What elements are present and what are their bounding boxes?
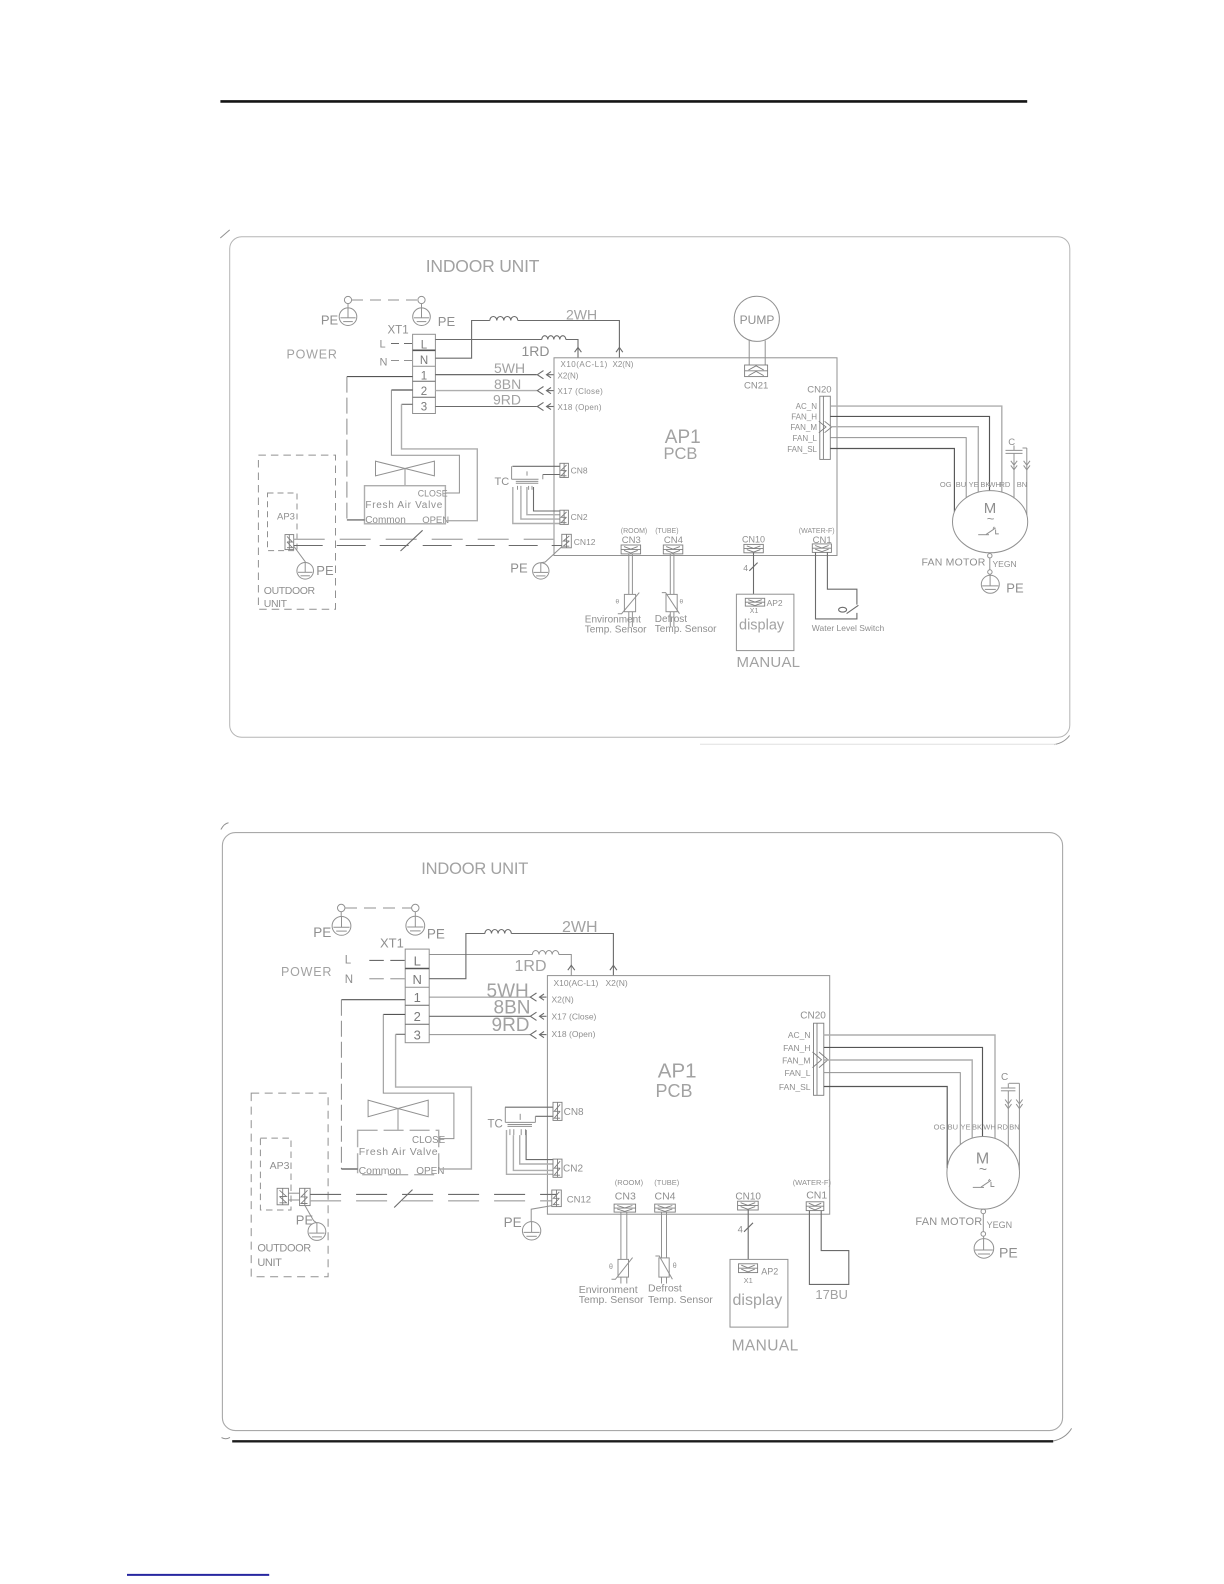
dashed wire N to XT1 [391, 360, 413, 362]
wire YEGN to PE [989, 558, 991, 570]
svg-text:AC_N: AC_N [788, 1030, 811, 1040]
svg-text:XT1: XT1 [388, 325, 409, 337]
svg-text:BK: BK [972, 1123, 982, 1132]
svg-text:FAN_H: FAN_H [791, 412, 817, 421]
svg-text:2: 2 [421, 386, 427, 398]
svg-text:(ROOM): (ROOM) [621, 528, 647, 535]
secondary wire 1 to CN2 (diagram 2) [526, 1130, 553, 1160]
svg-text:Common: Common [365, 515, 406, 526]
wire L to X10(AC-L1) with choke coil 1RD (diagram 2) [429, 951, 571, 976]
wires CN3 to sensor (diagram 2) [620, 1212, 622, 1259]
svg-text:TC: TC [495, 476, 510, 488]
svg-text:BU: BU [956, 480, 966, 489]
svg-text:2: 2 [414, 1009, 421, 1024]
motor earth terminal [988, 554, 992, 558]
svg-text:X10(AC-L1): X10(AC-L1) [561, 360, 608, 369]
interconnect cable wire lower (diagram 2) [310, 1200, 551, 1202]
svg-text:(TUBE): (TUBE) [655, 528, 678, 535]
svg-text:YEGN: YEGN [987, 1220, 1013, 1230]
wire terminal2 to CLOSE (diagram 2) [383, 1013, 405, 1015]
connector CN8 [560, 463, 569, 477]
PCB AP1 outline (diagram 1) [554, 358, 837, 556]
svg-text:PUMP: PUMP [740, 313, 775, 327]
secondary wire 4 to CN2 (diagram 2) [507, 1130, 554, 1174]
connector CN20 [819, 396, 832, 459]
svg-text:FAN_L: FAN_L [785, 1068, 811, 1078]
connector CN20 (diagram 2) [813, 1023, 829, 1095]
svg-text:5WH: 5WH [494, 360, 525, 376]
connector CN12 [562, 534, 572, 548]
svg-text:L: L [345, 954, 352, 966]
wire CN12 to PE [541, 547, 562, 563]
wire CN10 to display [753, 553, 755, 594]
svg-text:INDOOR UNIT: INDOOR UNIT [426, 256, 540, 276]
connector CN3 [621, 545, 641, 554]
svg-text:AC_N: AC_N [796, 402, 818, 411]
svg-text:display: display [733, 1292, 783, 1309]
wires CN4 to sensor (diagram 2) [661, 1212, 663, 1258]
svg-text:Common: Common [359, 1165, 402, 1177]
interconnect cable wire (upper) [294, 538, 562, 540]
svg-text:BU: BU [948, 1123, 958, 1132]
svg-text:(WATER-F): (WATER-F) [793, 1178, 832, 1187]
wire N to X2(N) with choke coil 2WH [435, 317, 619, 359]
svg-text:PE: PE [313, 925, 331, 940]
PE symbol fan motor [981, 570, 999, 594]
svg-text:AP2: AP2 [767, 598, 783, 608]
wire capacitor RD to motor [1011, 453, 1017, 498]
arrow into X10(AC-L1) [575, 347, 582, 352]
svg-text:N: N [420, 355, 428, 367]
svg-text:CN1: CN1 [813, 535, 832, 546]
wire capacitor BN to motor [1024, 448, 1030, 515]
svg-text:FAN_H: FAN_H [783, 1043, 810, 1053]
svg-text:PCB: PCB [656, 1081, 693, 1101]
dashed link between PE terminals (diagram 2) [345, 907, 412, 909]
secondary wire 3 to CN2 (diagram 2) [513, 1135, 553, 1170]
svg-text:YE: YE [960, 1123, 970, 1132]
wire terminal2 to CLOSE [391, 389, 412, 391]
connector AP3 [285, 535, 294, 550]
connector CN1 (diagram 2) [806, 1202, 824, 1211]
connector CN21 [745, 365, 768, 377]
svg-text:1RD: 1RD [522, 343, 550, 359]
svg-text:MANUAL: MANUAL [732, 1337, 799, 1354]
connector CN4 [663, 545, 683, 554]
wire 8BN (diagram 2) [429, 1015, 530, 1017]
svg-text:X2(N): X2(N) [613, 360, 634, 369]
svg-text:UNIT: UNIT [264, 598, 288, 610]
wire N to X2(N) with choke coil 2WH (diagram 2) [429, 930, 613, 979]
wires CN3 to sensor [628, 554, 630, 595]
svg-text:AP2: AP2 [761, 1266, 778, 1276]
arrows 5WH into pin (diagram 2) [530, 993, 546, 1001]
svg-text:PE: PE [427, 926, 445, 941]
corner curl bottom-right box2 [1053, 1428, 1071, 1441]
svg-text:AP3: AP3 [277, 511, 295, 522]
svg-text:CLOSE: CLOSE [412, 1135, 446, 1146]
arrows 8BN into pin (diagram 2) [530, 1012, 546, 1020]
wire CN10 to display (diagram 2) [747, 1210, 749, 1259]
wire terminal1 to Common [347, 376, 413, 378]
svg-text:θ: θ [616, 599, 620, 606]
water level switch [816, 552, 859, 619]
PE symbol outdoor [297, 563, 314, 580]
dashed wire L to XT1 [391, 343, 413, 345]
transformer TC primary and wires to CN8 (diagram 2) [505, 1107, 553, 1116]
svg-text:CN3: CN3 [622, 535, 641, 546]
svg-text:Temp. Sensor: Temp. Sensor [579, 1294, 644, 1306]
connector CN1 [812, 544, 831, 553]
svg-text:FAN MOTOR: FAN MOTOR [915, 1216, 982, 1228]
wire terminal3 to OPEN (diagram 2) [396, 1033, 406, 1035]
wire FAN_M to motor YE (diagram 2) [824, 1060, 972, 1138]
svg-text:CN21: CN21 [744, 381, 768, 392]
svg-text:X1: X1 [744, 1276, 753, 1285]
wire 9RD (diagram 2) [429, 1034, 530, 1036]
svg-text:Temp. Sensor: Temp. Sensor [655, 624, 717, 635]
arrow into X2(N) top (diagram 2) [610, 965, 617, 970]
svg-text:N: N [380, 357, 388, 369]
thermal protector symbol (diagram 2) [973, 1179, 995, 1187]
svg-text:CN2: CN2 [571, 512, 588, 522]
svg-text:(ROOM): (ROOM) [615, 1178, 644, 1187]
top rule [220, 100, 1027, 103]
wire CN12 to PE (diagram 2) [531, 1206, 552, 1222]
svg-text:PE: PE [1006, 581, 1024, 596]
frame box diagram 2 [222, 833, 1062, 1431]
AP3 dashed box (diagram 2) [260, 1138, 291, 1210]
svg-text:X2(N): X2(N) [552, 995, 574, 1005]
fresh air valve box (diagram 2) [358, 1130, 439, 1174]
faint shadow line under box1 [700, 743, 1056, 745]
thermistor defrost sensor (diagram 2) [655, 1256, 672, 1284]
terminal block XT1 (diagram 2) [405, 949, 429, 1043]
blue footer underline [127, 1574, 269, 1576]
wire 5WH (diagram 2) [429, 996, 530, 998]
svg-text:OUTDOOR: OUTDOOR [264, 585, 316, 597]
thermal protector symbol [978, 527, 999, 535]
svg-text:UNIT: UNIT [257, 1257, 282, 1269]
arrows 9RD into pin X18 [537, 402, 553, 410]
svg-text:L: L [421, 340, 428, 352]
dark rule under box2 [232, 1440, 1053, 1442]
svg-text:POWER: POWER [281, 965, 332, 979]
fresh air valve box [365, 486, 446, 524]
PE symbol near CN12 (diagram 2) [522, 1222, 540, 1240]
svg-text:CN2: CN2 [563, 1163, 583, 1174]
wire AP3 to PE [294, 547, 305, 564]
arrows 8BN into pin X17 [537, 387, 553, 395]
svg-text:OPEN: OPEN [422, 515, 449, 526]
stub wires between AP3 connectors (diagram 2) [288, 1192, 299, 1194]
svg-text:RD: RD [999, 480, 1010, 489]
svg-text:CN20: CN20 [800, 1011, 826, 1022]
svg-text:YE: YE [969, 480, 979, 489]
svg-text:PCB: PCB [664, 445, 698, 463]
svg-text:BN: BN [1017, 480, 1027, 489]
dashed wire N to XT1 (diagram 2) [369, 978, 405, 980]
fresh air valve bowtie symbol [376, 461, 435, 476]
interconnect cable wire (lower) [294, 545, 562, 547]
svg-text:L: L [380, 339, 386, 351]
wire FAN_L to motor BU (diagram 2) [824, 1073, 961, 1145]
transformer core (diagram 2) [508, 1124, 533, 1126]
svg-text:~: ~ [987, 511, 995, 526]
svg-text:CN20: CN20 [807, 385, 831, 396]
connector CN8 (diagram 2) [553, 1102, 562, 1120]
thermistor environment sensor (diagram 2) [612, 1258, 633, 1284]
svg-text:BN: BN [1009, 1123, 1019, 1132]
svg-text:AP1: AP1 [658, 1059, 697, 1082]
fan motor circle M (diagram 2) [947, 1137, 1020, 1210]
svg-text:9RD: 9RD [492, 1015, 530, 1036]
svg-text:2WH: 2WH [566, 307, 597, 323]
wire CN1 to water level switch [827, 552, 857, 604]
secondary wire 2 to CN2 [527, 487, 560, 515]
svg-text:1: 1 [421, 371, 427, 383]
svg-text:N: N [345, 974, 353, 986]
svg-text:X1: X1 [750, 608, 759, 615]
svg-text:AP3: AP3 [270, 1160, 290, 1172]
svg-text:Fresh Air Valve: Fresh Air Valve [365, 500, 443, 511]
cable count slash (diagram 2) [394, 1190, 412, 1208]
frame box diagram 1 [230, 237, 1070, 738]
wire 9RD [435, 406, 536, 408]
svg-text:FAN_M: FAN_M [782, 1056, 810, 1066]
svg-text:display: display [739, 618, 785, 634]
corner curl bottom-right box1 [1054, 736, 1070, 745]
svg-text:3: 3 [421, 402, 427, 414]
svg-text:Defrost: Defrost [648, 1283, 682, 1295]
transformer secondary winding ticks [518, 486, 533, 490]
secondary wire 1 to CN2 [534, 487, 561, 511]
svg-text:~: ~ [979, 1161, 987, 1177]
connector CN10 [744, 544, 763, 552]
svg-text:X2(N): X2(N) [558, 371, 579, 380]
svg-text:9RD: 9RD [493, 391, 521, 407]
wire FAN_M to motor (YE) [830, 427, 978, 493]
connector AP2/X1 (diagram 2) [739, 1264, 758, 1273]
PCB AP1 outline (diagram 2) [547, 976, 829, 1215]
svg-text:PE: PE [316, 563, 334, 578]
svg-text:PE: PE [321, 313, 339, 328]
AP3 dashed box [268, 493, 298, 551]
svg-text:X2(N): X2(N) [606, 978, 628, 988]
svg-text:8BN: 8BN [494, 376, 521, 392]
svg-text:CN8: CN8 [571, 465, 588, 475]
terminal block XT1 (diagram 1) [413, 334, 436, 413]
wire FAN_SL to motor (OG) [830, 449, 954, 512]
thermistor (environment sensor) [618, 593, 640, 627]
wire mating connector to PE (diagram 2) [305, 1206, 317, 1223]
mating connector on cable (diagram 2) [300, 1188, 311, 1205]
arrow into X2(N) top [616, 347, 623, 352]
fresh air valve bowtie symbol (diagram 2) [368, 1100, 428, 1117]
wire 5WH [435, 374, 536, 376]
secondary wire 2 to CN2 (diagram 2) [520, 1135, 553, 1164]
svg-text:θ: θ [680, 599, 684, 606]
PUMP motor circle [734, 296, 779, 341]
wire capacitor RD to motor (diagram 2) [1005, 1091, 1011, 1147]
svg-text:X17 (Close): X17 (Close) [558, 387, 604, 396]
corner curl bottom-left box2 [222, 1437, 231, 1438]
connector CN4 (diagram 2) [655, 1204, 676, 1212]
svg-text:TC: TC [488, 1118, 503, 1130]
wire L to X10(AC-L1) with choke coil 1RD [435, 336, 578, 358]
svg-text:PE: PE [510, 560, 528, 575]
PE symbol fan motor (diagram 2) [974, 1232, 994, 1259]
svg-text:L: L [414, 954, 421, 969]
wire 8BN [435, 390, 536, 392]
svg-text:Water Level Switch: Water Level Switch [812, 623, 885, 633]
transformer TC primary and wires to CN8 [512, 466, 560, 474]
wires PUMP to CN21 [748, 341, 750, 366]
wires CN4 to sensor [669, 554, 671, 595]
display board box (diagram 2) [730, 1259, 788, 1327]
fan motor circle M [953, 491, 1028, 553]
svg-text:PE: PE [999, 1244, 1018, 1260]
connector CN2 [560, 510, 569, 524]
connector AP3 (diagram 2) [277, 1188, 288, 1205]
svg-text:X17 (Close): X17 (Close) [552, 1012, 597, 1022]
svg-text:1RD: 1RD [515, 958, 547, 975]
PE symbol near CN12 [533, 563, 549, 579]
wire AC_N to motor WH (diagram 2) [824, 1035, 995, 1139]
svg-text:XT1: XT1 [380, 936, 404, 951]
svg-text:FAN MOTOR: FAN MOTOR [922, 556, 986, 568]
outdoor unit dashed box [258, 455, 335, 609]
capacitor C (diagram 2) [1001, 1083, 1020, 1091]
dashed link between PE terminals [352, 299, 418, 301]
connector AP2/X1 [745, 598, 764, 606]
svg-text:Temp. Sensor: Temp. Sensor [585, 624, 647, 635]
connector CN12 (diagram 2) [552, 1190, 562, 1207]
svg-text:CLOSE: CLOSE [418, 489, 448, 499]
svg-text:3: 3 [414, 1028, 421, 1043]
svg-text:(WATER-F): (WATER-F) [799, 528, 835, 535]
svg-text:Temp. Sensor: Temp. Sensor [648, 1294, 713, 1306]
svg-text:FAN_SL: FAN_SL [787, 445, 817, 454]
svg-text:FAN_M: FAN_M [790, 423, 817, 432]
PE symbol 2 (diagram 1) [413, 296, 431, 325]
svg-text:YEGN: YEGN [993, 559, 1017, 569]
svg-text:INDOOR UNIT: INDOOR UNIT [421, 860, 528, 878]
PE symbol 1 (diagram 2) [332, 904, 351, 935]
svg-text:4: 4 [738, 1224, 743, 1235]
svg-text:N: N [413, 972, 422, 987]
arrows 5WH into pin X2(N) [537, 371, 553, 379]
svg-text:CN12: CN12 [574, 537, 596, 547]
PE symbol 1 (top left, diagram 1) [339, 296, 357, 325]
svg-text:OUTDOOR: OUTDOOR [257, 1243, 311, 1255]
wire FAN_H to motor (BK) [830, 416, 989, 490]
wire AC_N to motor (WH) [830, 406, 1002, 492]
svg-text:X10(AC-L1): X10(AC-L1) [554, 978, 599, 988]
svg-text:OG: OG [934, 1123, 946, 1132]
wire capacitor BN to motor (diagram 2) [1016, 1083, 1022, 1170]
svg-text:CN12: CN12 [567, 1194, 591, 1205]
svg-text:MANUAL: MANUAL [737, 654, 801, 671]
svg-text:CN10: CN10 [742, 535, 765, 545]
svg-text:PE: PE [438, 314, 456, 329]
PE symbol outdoor (diagram 2) [308, 1223, 326, 1241]
arrow into X10(AC-L1) (diagram 2) [568, 965, 575, 970]
secondary wire 3 to CN2 [521, 490, 560, 519]
wire terminal3 to OPEN [402, 403, 413, 405]
svg-text:X18 (Open): X18 (Open) [552, 1029, 596, 1039]
svg-text:FAN_SL: FAN_SL [779, 1082, 811, 1092]
connector CN10 (diagram 2) [738, 1201, 759, 1210]
display board box [736, 594, 794, 650]
svg-text:X18 (Open): X18 (Open) [558, 403, 602, 412]
dashed wire L to XT1 (diagram 2) [369, 959, 405, 961]
capacitor C [1006, 446, 1027, 454]
svg-text:CN3: CN3 [615, 1191, 636, 1203]
thermistor (defrost sensor) [662, 593, 680, 627]
secondary wire 4 to CN2 [513, 487, 560, 524]
valve stem [404, 469, 406, 486]
transformer secondary ticks (diagram 2) [510, 1129, 526, 1135]
cable count slash [401, 530, 423, 551]
svg-text:CN1: CN1 [806, 1190, 827, 1202]
svg-text:RD: RD [997, 1123, 1008, 1132]
valve stem (diagram 2) [397, 1109, 399, 1131]
interconnect cable wire upper (diagram 2) [310, 1193, 557, 1195]
svg-text:C: C [1001, 1072, 1008, 1083]
svg-text:OPEN: OPEN [416, 1166, 444, 1177]
outdoor unit dashed box (diagram 2) [251, 1093, 328, 1277]
svg-text:2WH: 2WH [562, 919, 598, 936]
wire FAN_H to motor BK (diagram 2) [824, 1047, 983, 1136]
connector CN2 (diagram 2) [553, 1159, 562, 1177]
wire terminal1 to Common (diagram 2) [341, 999, 405, 1001]
corner curl top-left box2 [221, 823, 229, 830]
svg-text:CN4: CN4 [664, 535, 683, 546]
svg-text:17BU: 17BU [815, 1287, 848, 1302]
svg-text:1: 1 [414, 990, 421, 1005]
PE symbol 2 (diagram 2) [406, 904, 425, 935]
corner curl top-left box1 [220, 230, 229, 238]
wire 17BU jumper on CN1 (diagram 2) [809, 1211, 848, 1285]
svg-text:(TUBE): (TUBE) [654, 1178, 680, 1187]
svg-text:Fresh Air Valve: Fresh Air Valve [359, 1146, 438, 1158]
svg-text:FAN_L: FAN_L [793, 434, 818, 443]
wire FAN_SL to motor OG (diagram 2) [824, 1087, 947, 1169]
arrows 9RD into pin (diagram 2) [530, 1031, 546, 1039]
svg-text:CN8: CN8 [564, 1107, 584, 1118]
wire YEGN to PE (diagram 2) [982, 1214, 984, 1232]
svg-text:PE: PE [296, 1213, 314, 1228]
connector CN3 (diagram 2) [614, 1204, 636, 1212]
svg-text:OG: OG [940, 480, 952, 489]
svg-text:CN4: CN4 [655, 1191, 676, 1203]
svg-text:θ: θ [673, 1263, 677, 1270]
svg-text:4: 4 [743, 563, 748, 573]
transformer core [516, 480, 539, 482]
svg-text:PE: PE [504, 1215, 522, 1230]
svg-text:θ: θ [609, 1264, 613, 1271]
wire FAN_L to motor (BU) [830, 438, 966, 498]
svg-text:POWER: POWER [287, 348, 338, 362]
motor earth terminal (diagram 2) [981, 1209, 986, 1214]
svg-text:WH: WH [983, 1123, 996, 1132]
